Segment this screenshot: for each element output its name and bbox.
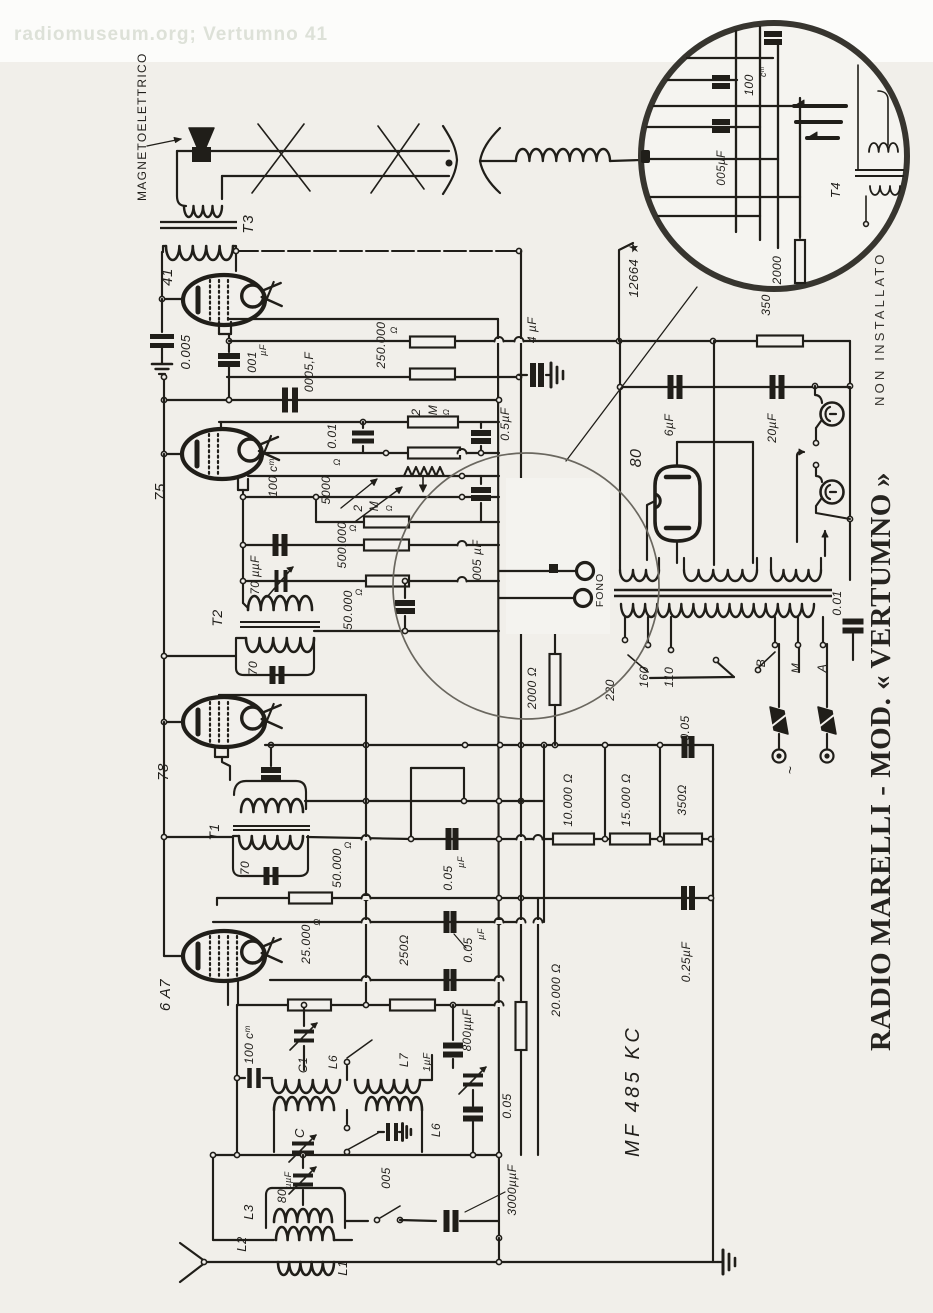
svg-text:C: C: [292, 1128, 307, 1138]
svg-text:Ω: Ω: [332, 458, 342, 465]
svg-text:500.000: 500.000: [335, 522, 349, 569]
svg-text:L6: L6: [326, 1055, 340, 1069]
svg-text:L2: L2: [234, 1236, 249, 1252]
svg-text:0.25µF: 0.25µF: [679, 942, 693, 983]
svg-text:15.000 Ω: 15.000 Ω: [619, 773, 633, 826]
svg-text:70: 70: [238, 861, 252, 875]
svg-text:µF: µF: [456, 856, 466, 868]
svg-text:2000 Ω: 2000 Ω: [525, 667, 539, 710]
svg-text:Ω: Ω: [385, 505, 394, 512]
svg-text:L7: L7: [397, 1052, 411, 1067]
svg-text:3000µµF: 3000µµF: [505, 1164, 519, 1216]
svg-text:Ω: Ω: [389, 326, 399, 333]
svg-text:0.5µF: 0.5µF: [498, 407, 512, 441]
svg-text:80: 80: [628, 449, 645, 468]
svg-text:Ω: Ω: [354, 588, 364, 595]
svg-text:001: 001: [245, 351, 259, 373]
svg-text:M: M: [789, 663, 803, 674]
svg-text:0.05: 0.05: [500, 1093, 514, 1118]
svg-text:µF: µF: [476, 928, 486, 940]
svg-text:0005,F: 0005,F: [302, 352, 316, 393]
svg-text:Ω: Ω: [442, 409, 451, 416]
svg-text:cᵐ: cᵐ: [758, 67, 768, 77]
svg-text:80: 80: [275, 1189, 289, 1203]
svg-text:NON INSTALLATO: NON INSTALLATO: [872, 251, 887, 406]
svg-text:L3: L3: [241, 1204, 256, 1220]
svg-text:M: M: [426, 405, 440, 416]
svg-text:20.000 Ω: 20.000 Ω: [549, 963, 563, 1017]
svg-text:L6: L6: [429, 1123, 443, 1137]
svg-text:0.01: 0.01: [830, 590, 844, 615]
svg-text:T4: T4: [828, 182, 843, 198]
svg-text:2: 2: [409, 408, 423, 416]
svg-text:70: 70: [246, 661, 260, 675]
svg-text:100 cᵐ: 100 cᵐ: [266, 458, 280, 497]
svg-text:350Ω: 350Ω: [675, 784, 689, 815]
svg-text:Ω: Ω: [348, 524, 358, 531]
svg-text:005µF: 005µF: [716, 150, 728, 186]
svg-text:75: 75: [152, 483, 169, 501]
svg-text:Ω: Ω: [343, 841, 353, 848]
svg-text:Ω: Ω: [312, 918, 322, 925]
svg-text:220: 220: [603, 679, 617, 702]
svg-text:50.000: 50.000: [330, 848, 344, 888]
svg-text:2: 2: [351, 504, 365, 512]
svg-text:6 A7: 6 A7: [157, 979, 174, 1011]
svg-text:70 µµF: 70 µµF: [250, 555, 262, 595]
svg-text:T2: T2: [209, 609, 225, 626]
svg-text:250Ω: 250Ω: [397, 934, 411, 966]
svg-text:800µµF: 800µµF: [462, 1008, 474, 1051]
svg-text:0.05: 0.05: [441, 865, 455, 890]
svg-text:10.000 Ω: 10.000 Ω: [561, 773, 575, 826]
svg-text:250.000: 250.000: [374, 322, 388, 370]
svg-text:2000: 2000: [770, 256, 784, 286]
svg-text:0.05: 0.05: [461, 937, 475, 962]
svg-text:0.01: 0.01: [325, 423, 339, 448]
svg-text:RADIO MARELLI - MOD. « VERT: RADIO MARELLI - MOD. « VERTUMNO »: [865, 472, 897, 1051]
svg-text:FONO: FONO: [594, 573, 606, 607]
svg-text:25.000: 25.000: [299, 924, 313, 965]
svg-text:0.005: 0.005: [178, 334, 193, 369]
svg-text:100 cᵐ: 100 cᵐ: [242, 1025, 256, 1064]
svg-text:µF: µF: [258, 344, 268, 356]
svg-text:T3: T3: [240, 214, 257, 234]
svg-text:~: ~: [782, 766, 798, 775]
svg-text:005: 005: [379, 1167, 393, 1189]
svg-text:C1: C1: [296, 1057, 310, 1073]
svg-text:MAGNETOELETTRICO: MAGNETOELETTRICO: [135, 52, 149, 201]
svg-text:µµF: µµF: [283, 1171, 293, 1188]
svg-text:6µF: 6µF: [662, 414, 676, 437]
svg-text:MF 485 KC: MF 485 KC: [622, 1025, 644, 1157]
svg-text:M: M: [367, 501, 381, 512]
svg-text:5000: 5000: [319, 476, 333, 505]
svg-text:0.05: 0.05: [678, 715, 692, 740]
svg-text:20µF: 20µF: [765, 413, 779, 444]
svg-text:100: 100: [742, 74, 756, 96]
svg-text:L1: L1: [335, 1260, 350, 1275]
svg-text:50.000: 50.000: [341, 590, 355, 630]
svg-text:350: 350: [759, 294, 773, 316]
svg-text:12664 ★: 12664 ★: [626, 242, 641, 298]
svg-text:4 µF: 4 µF: [525, 317, 539, 343]
